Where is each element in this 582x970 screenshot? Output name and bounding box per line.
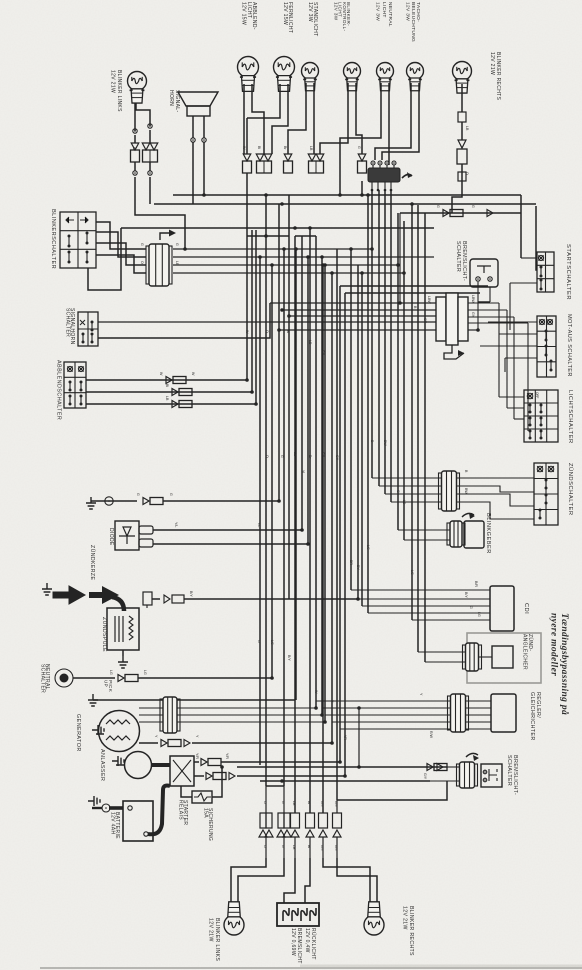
wire: trunk y213 with connector xyxy=(400,195,521,258)
ground: coil ground xyxy=(118,650,128,668)
wire: relay output 2 xyxy=(194,773,347,780)
svg-text:LG: LG xyxy=(366,545,370,550)
svg-text:BW: BW xyxy=(464,488,468,494)
svg-text:LICHTSCHALTER: LICHTSCHALTER xyxy=(567,390,573,444)
wire: to left blinker xyxy=(231,858,284,903)
connector: bullet single under blinker links xyxy=(131,143,140,162)
wire: to right blinker xyxy=(323,858,377,903)
connector: generator inline coupler xyxy=(160,697,180,733)
svg-text:BR: BR xyxy=(349,560,353,565)
svg-text:GY: GY xyxy=(321,452,325,458)
svg-text:HORN: HORN xyxy=(168,90,174,106)
wire: kill switch feeds xyxy=(480,286,537,372)
wire: neutral licht leads xyxy=(338,83,389,197)
starter motor: Anlasser xyxy=(99,749,152,781)
wire: tacho leads xyxy=(375,83,419,160)
connector: angleicher coupler xyxy=(463,643,482,671)
svg-text:LB: LB xyxy=(309,146,313,151)
svg-text:BLINKER LINKS: BLINKER LINKS xyxy=(214,918,220,961)
lamp: Tacho-Beleuchtung (12V 3W) xyxy=(405,2,424,91)
svg-text:W: W xyxy=(245,330,249,334)
switch: Abblendschalter xyxy=(56,360,87,420)
switch: Blinkerschalter xyxy=(50,209,96,269)
svg-text:G/Y: G/Y xyxy=(320,801,324,808)
svg-text:SCHALTER: SCHALTER xyxy=(506,755,512,786)
svg-text:LICHT: LICHT xyxy=(381,2,387,18)
svg-text:LG: LG xyxy=(109,670,113,675)
connector: main frame coupler xyxy=(436,293,468,359)
wire: blinker links leads xyxy=(133,103,152,143)
svg-text:LB: LB xyxy=(308,340,312,345)
svg-text:Y/R: Y/R xyxy=(195,753,199,759)
wire: neutral switch lead xyxy=(73,670,274,682)
svg-text:GY: GY xyxy=(423,318,427,324)
connector: bullet single C xyxy=(283,146,293,173)
svg-text:G: G xyxy=(280,455,284,458)
spark plug: Zuendkerze xyxy=(42,545,119,604)
svg-text:B/Y: B/Y xyxy=(287,655,291,661)
switch: Zuendschalter (ignition) xyxy=(534,463,574,525)
svg-text:G: G xyxy=(281,845,285,848)
svg-text:G/Y: G/Y xyxy=(423,773,427,780)
svg-text:DIODE: DIODE xyxy=(108,528,114,546)
wire codes along harness xyxy=(245,330,414,740)
lamp: Ruecklicht/Bremslicht unit xyxy=(277,903,319,964)
connector: bullet double left xyxy=(142,143,158,162)
wire: regler junction drop xyxy=(357,706,361,767)
wire: coupler right tails xyxy=(140,243,434,275)
ground: frame ground (horn circuit) xyxy=(86,497,137,509)
resistor: blinker rechts xyxy=(457,149,469,181)
svg-text:G/Y: G/Y xyxy=(320,845,324,852)
connector: ring terminal xyxy=(105,497,113,505)
svg-text:RÜCKLICHT: RÜCKLICHT xyxy=(310,928,317,960)
svg-text:LB: LB xyxy=(175,261,179,266)
svg-text:RELAIS: RELAIS xyxy=(177,800,183,820)
svg-text:O: O xyxy=(140,261,144,264)
wire: horn leads xyxy=(191,116,206,204)
svg-text:BLINKER RECHTS: BLINKER RECHTS xyxy=(408,906,414,956)
svg-text:G: G xyxy=(136,493,140,496)
svg-text:LB: LB xyxy=(292,845,296,850)
svg-text:B/Y: B/Y xyxy=(464,592,468,598)
svg-text:W: W xyxy=(191,372,195,376)
switch: Startschalter xyxy=(537,244,571,300)
wire: third bottom trunk xyxy=(337,781,447,813)
wire: blinkerschalter outputs xyxy=(88,222,146,290)
module: Zuend-Angleicher xyxy=(479,634,534,670)
lamp: Blinker rechts front (12V 21W) xyxy=(453,52,502,101)
svg-text:12V 21W: 12V 21W xyxy=(110,70,116,93)
wire: relay output 1 xyxy=(194,753,342,766)
switch: Bremslicht-Schalter (rear) xyxy=(466,753,518,795)
wire: generator outputs xyxy=(139,706,327,724)
svg-text:BLINKER LINKS: BLINKER LINKS xyxy=(116,70,122,112)
svg-text:LG: LG xyxy=(143,670,147,675)
svg-text:G: G xyxy=(169,493,173,496)
option box (grey): Zuend-Angleicher xyxy=(467,633,541,683)
connector: bullet blinker rechts xyxy=(458,112,469,140)
svg-text:UP: UP xyxy=(103,680,108,687)
svg-text:12V 3W: 12V 3W xyxy=(307,2,313,22)
svg-text:12V 3W: 12V 3W xyxy=(375,2,381,21)
svg-text:LG: LG xyxy=(410,570,414,575)
wire: trunk y195 xyxy=(173,193,521,197)
wire: coil primary lead xyxy=(143,591,360,608)
svg-text:CDI: CDI xyxy=(523,603,529,614)
generator: alternator xyxy=(75,711,140,752)
svg-text:LG: LG xyxy=(477,612,481,617)
lamp: Blinker links front (12V 21W) xyxy=(110,70,147,112)
svg-text:12V 0,4W: 12V 0,4W xyxy=(304,928,310,953)
svg-text:BREMSLICHT-: BREMSLICHT- xyxy=(512,755,518,795)
svg-text:W: W xyxy=(159,372,163,376)
diode symbol on blinker rechts wire xyxy=(458,140,466,148)
svg-text:LBW: LBW xyxy=(427,296,431,304)
connector: bullet double D xyxy=(308,146,324,173)
svg-text:W: W xyxy=(242,146,246,150)
svg-text:O: O xyxy=(465,172,469,175)
svg-text:BELEUCHTUNG: BELEUCHTUNG xyxy=(410,2,416,42)
svg-text:12V 21W: 12V 21W xyxy=(489,52,495,75)
wire: trunk y228 xyxy=(121,226,434,230)
wire: to tail lamp xyxy=(284,858,310,903)
svg-text:12V 0,69W: 12V 0,69W xyxy=(290,928,296,956)
svg-text:GY: GY xyxy=(471,312,475,318)
svg-text:R/W: R/W xyxy=(429,731,433,739)
svg-text:12V 3W: 12V 3W xyxy=(333,2,338,21)
svg-text:12V 4AH: 12V 4AH xyxy=(109,812,115,835)
lamp: Fernlicht (12V 15W) xyxy=(274,2,295,91)
svg-text:LB: LB xyxy=(465,126,469,131)
wire: lichtschalter feeds xyxy=(499,303,528,431)
svg-text:ZÜNDSPULE: ZÜNDSPULE xyxy=(101,617,108,652)
svg-text:O: O xyxy=(132,147,136,150)
svg-text:B/R: B/R xyxy=(474,581,478,587)
note: Taendingsbypassning xyxy=(549,613,571,715)
svg-text:O: O xyxy=(257,640,261,643)
svg-text:ZÜNDSCHALTER: ZÜNDSCHALTER xyxy=(567,463,574,516)
wire: abblendschalter output 2 xyxy=(86,384,254,396)
wire: rear brake feeds xyxy=(423,764,460,782)
svg-text:15A: 15A xyxy=(202,808,208,818)
svg-text:SCHALTER: SCHALTER xyxy=(39,664,45,693)
svg-text:12V 3W: 12V 3W xyxy=(405,2,411,21)
svg-text:SCHALTER: SCHALTER xyxy=(64,308,70,337)
lamp: Blinker links rear (12V 21W) xyxy=(208,902,244,962)
wire: fernlicht leads xyxy=(247,84,288,154)
connector: ignition inline coupler xyxy=(439,471,460,511)
diode: D1 (in box) xyxy=(108,521,139,550)
svg-text:G: G xyxy=(175,243,179,246)
svg-text:BY: BY xyxy=(356,565,360,570)
regulator: Regler/Gleichrichter xyxy=(491,692,541,741)
svg-text:MOT-AUS SCHALTER: MOT-AUS SCHALTER xyxy=(566,314,572,377)
svg-text:G: G xyxy=(436,205,440,208)
svg-text:GLEICHRICHTER: GLEICHRICHTER xyxy=(529,692,535,741)
svg-text:G: G xyxy=(396,490,400,493)
svg-text:O: O xyxy=(265,455,269,458)
svg-text:OFF: OFF xyxy=(535,392,539,398)
svg-text:GY: GY xyxy=(335,455,339,461)
connector: handlebar inline coupler xyxy=(146,230,176,287)
svg-text:nyere modeller: nyere modeller xyxy=(549,613,559,676)
wire: standlicht leads xyxy=(288,83,314,154)
svg-text:LG: LG xyxy=(270,640,274,645)
svg-text:LB: LB xyxy=(165,396,169,401)
svg-text:GENERATOR: GENERATOR xyxy=(75,714,81,752)
lamp: Neutral Licht (12V 3W) xyxy=(375,2,394,91)
connector: bullet single E xyxy=(357,146,367,197)
svg-text:G: G xyxy=(140,243,144,246)
wire: blinker-kontroll leads xyxy=(320,83,362,154)
svg-text:BLINKERSCHALTER: BLINKERSCHALTER xyxy=(50,209,56,269)
lamp: Abblendlicht (12V 15W) xyxy=(238,2,259,91)
wire: trunk y204 xyxy=(154,202,536,206)
svg-text:W: W xyxy=(314,690,318,694)
svg-text:ABBLENDSCHALTER: ABBLENDSCHALTER xyxy=(56,360,62,420)
svg-text:12V 21W: 12V 21W xyxy=(208,918,214,942)
wire: signalhorn outputs xyxy=(98,303,270,338)
switch: Mot-Aus Schalter (kill switch) xyxy=(537,314,572,377)
wire: HT lead (thick) xyxy=(112,597,124,611)
wire: chain link to coupler xyxy=(135,177,187,251)
wire: regler feeds xyxy=(316,693,491,743)
wire: ignition switch wires xyxy=(372,470,534,519)
svg-text:GY: GY xyxy=(321,350,325,356)
CDI unit xyxy=(490,586,529,631)
svg-text:B/Y: B/Y xyxy=(189,591,193,597)
wire: ground wire to harness xyxy=(136,493,281,505)
switch: Lichtschalter xyxy=(524,390,573,444)
lamp: Blinker-Kontroll-Licht (12V 3W) xyxy=(333,2,360,91)
svg-text:G: G xyxy=(469,606,473,609)
svg-text:LB: LB xyxy=(292,801,296,806)
svg-text:YR: YR xyxy=(343,735,347,740)
connector: regler coupler xyxy=(448,694,469,732)
svg-text:Y/L: Y/L xyxy=(174,522,178,527)
svg-text:NEUTRAL: NEUTRAL xyxy=(387,2,393,27)
svg-text:Bl: Bl xyxy=(165,384,169,387)
svg-text:Y/R: Y/R xyxy=(225,753,229,759)
wire: generator yellow lead xyxy=(139,735,334,747)
svg-text:ZÜNDKERZE: ZÜNDKERZE xyxy=(89,545,96,580)
svg-text:BW: BW xyxy=(383,440,387,446)
svg-text:G/Y: G/Y xyxy=(334,845,338,852)
wire: startschalter feeds xyxy=(468,206,537,330)
wire: abblendschalter output 1 xyxy=(86,372,249,384)
svg-text:O: O xyxy=(265,330,269,333)
svg-text:YL: YL xyxy=(301,470,305,474)
wire: main coupler left pins xyxy=(98,213,436,332)
svg-text:12V 21W: 12V 21W xyxy=(402,906,408,930)
wire: headlight connector pigtails xyxy=(371,182,393,191)
horn: Signal Horn xyxy=(168,90,218,116)
svg-text:SCHALTER: SCHALTER xyxy=(455,241,461,272)
lamp socket connector (headlight 4-pin) xyxy=(368,161,412,182)
svg-text:G: G xyxy=(357,146,361,149)
wire bundle: main harness vertical runs xyxy=(247,173,425,813)
svg-text:ANGLEICHER: ANGLEICHER xyxy=(521,634,527,670)
ground: generator ground xyxy=(92,725,104,735)
wire: abblendschalter output 3 xyxy=(86,396,258,408)
switch: Bremslicht-Schalter (front) xyxy=(455,241,498,287)
switch: Neutral Schalter xyxy=(39,664,73,693)
connector: bullet single A xyxy=(242,146,252,173)
svg-text:12V 15W: 12V 15W xyxy=(241,2,247,25)
connector: rear brake coupler xyxy=(457,762,478,788)
svg-text:12V 15W: 12V 15W xyxy=(282,2,288,25)
wire: bottom trunk 1 xyxy=(237,764,447,771)
connector: diode plugs xyxy=(139,526,153,547)
wire: CDI feeds xyxy=(351,581,490,620)
switch: Signalhorn Schalter xyxy=(64,308,98,346)
ground: starter ground xyxy=(112,756,124,766)
wire bundle: harness jogs xyxy=(247,234,488,293)
wire: main coupler right pins xyxy=(468,295,528,330)
relay: Blinkgeber xyxy=(447,513,491,554)
starter cable (thick) xyxy=(151,763,170,767)
svg-text:Bl: Bl xyxy=(257,146,261,149)
ignition coil: Zuendspule xyxy=(101,608,139,652)
relay: Starter Relais xyxy=(170,756,194,825)
svg-text:G: G xyxy=(471,205,475,208)
svg-text:LBW: LBW xyxy=(471,295,475,303)
wire: diode leads xyxy=(153,522,310,546)
wire: blinkgeber feeds xyxy=(398,530,450,540)
battery positive cable (thick) xyxy=(148,786,170,835)
wire: blinker rechts lead xyxy=(452,84,462,213)
svg-text:ANLASSER: ANLASSER xyxy=(99,749,105,781)
svg-text:O: O xyxy=(263,845,267,848)
wire: pickup lead xyxy=(93,699,295,701)
svg-text:TACHO-: TACHO- xyxy=(415,2,421,22)
wire: angleicher feeds xyxy=(418,652,465,662)
battery: Batterie 12V 4Ah xyxy=(109,801,153,841)
scan artifact bottom edge xyxy=(40,966,582,968)
svg-text:BREMSLICHT-: BREMSLICHT- xyxy=(461,241,467,281)
wire: chain link 2 xyxy=(133,162,152,204)
wire: bottom trunk 2 xyxy=(260,779,430,783)
pickup coil ground xyxy=(88,680,113,706)
svg-text:BLINKER RECHTS: BLINKER RECHTS xyxy=(495,52,501,101)
wire: fuse bridge xyxy=(266,786,284,813)
svg-text:LB: LB xyxy=(293,452,297,457)
wire: abblendlicht leads xyxy=(244,84,264,154)
connector: bullet double B xyxy=(256,146,272,173)
fuse/connector row: tail harness xyxy=(259,801,342,858)
fuse: Sicherung 15A xyxy=(181,765,224,841)
svg-text:BLINKGEBER: BLINKGEBER xyxy=(485,513,491,554)
lamp: Blinker rechts rear (12V 21W) xyxy=(364,902,414,956)
battery ground cable (thick) xyxy=(88,796,123,812)
svg-text:STARTSCHALTER: STARTSCHALTER xyxy=(565,244,571,300)
wire: front brake switch leads xyxy=(468,282,490,332)
svg-text:REGLER/: REGLER/ xyxy=(535,692,541,718)
svg-text:Tændingsbypassning på: Tændingsbypassning på xyxy=(559,613,570,715)
lamp: Standlicht (12V 3W) xyxy=(302,2,319,91)
